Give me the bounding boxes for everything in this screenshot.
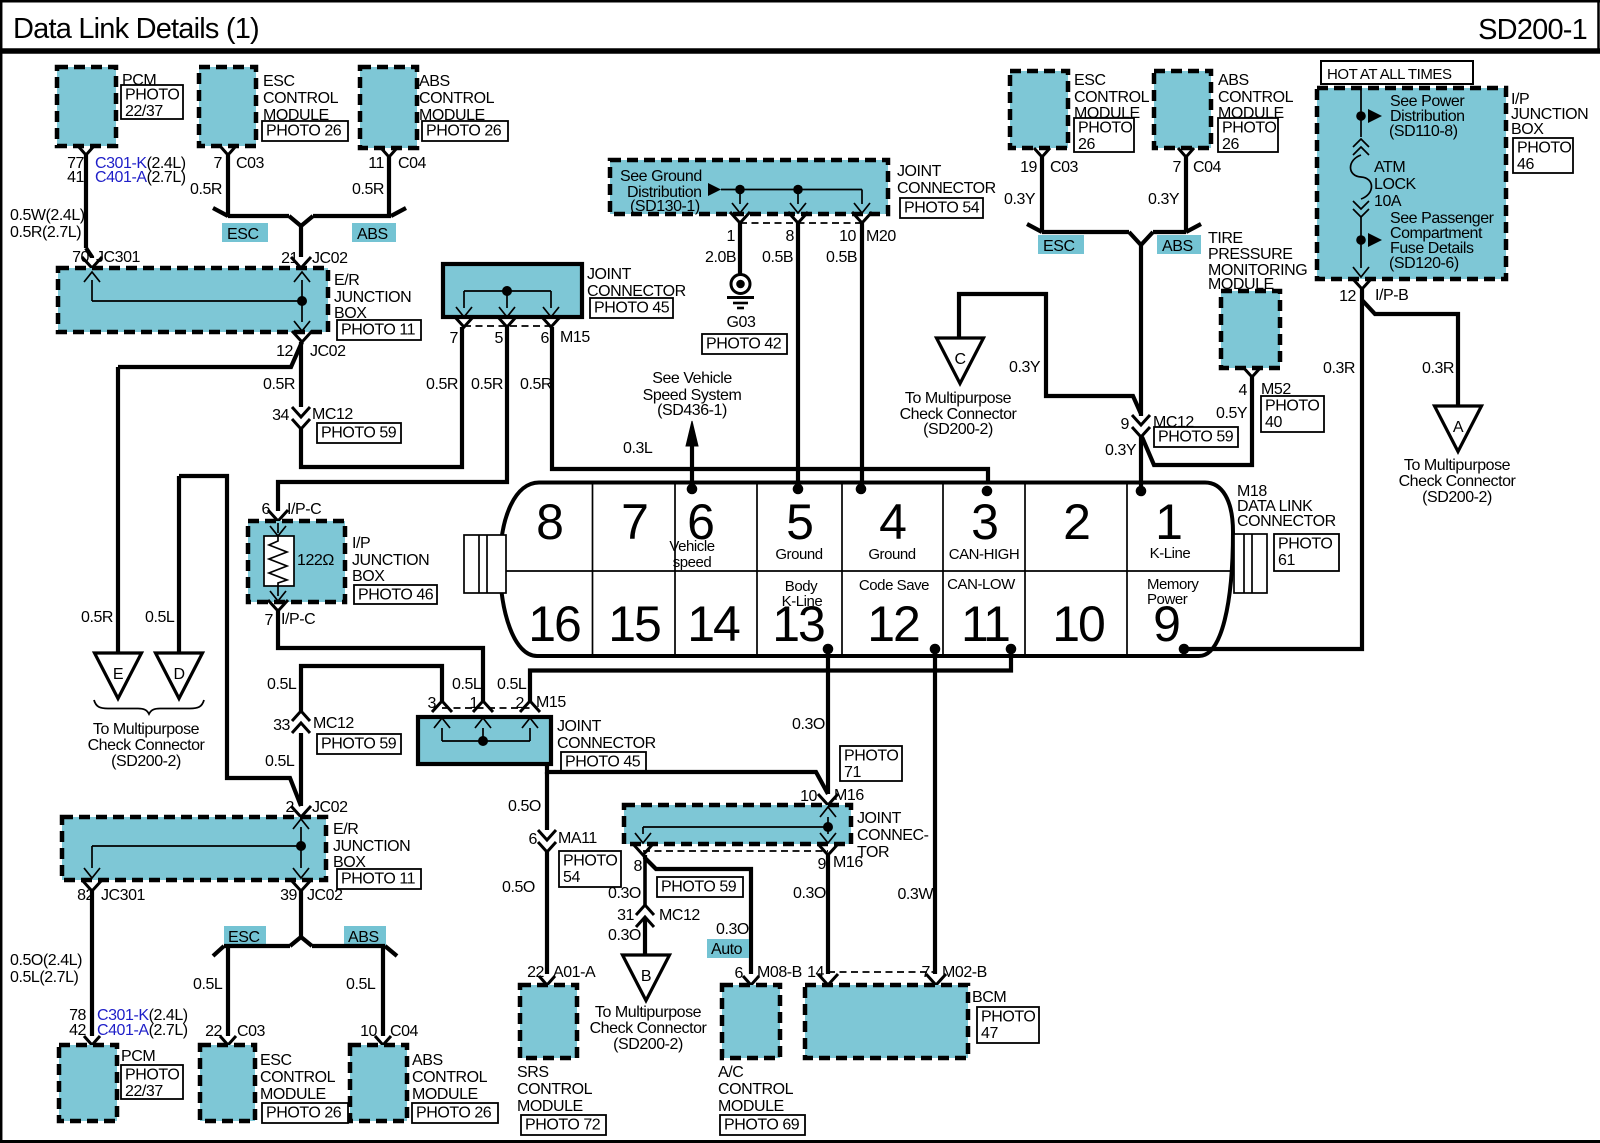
svg-text:1: 1: [727, 228, 736, 245]
svg-text:0.3W: 0.3W: [897, 886, 934, 903]
svg-text:0.5L: 0.5L: [267, 676, 297, 693]
svg-text:ESC: ESC: [1043, 238, 1075, 255]
svg-text:ATM: ATM: [1374, 159, 1405, 176]
svg-text:See Ground: See Ground: [620, 168, 702, 185]
svg-text:Code Save: Code Save: [859, 577, 929, 594]
svg-text:33: 33: [273, 717, 290, 734]
svg-text:I/P: I/P: [352, 535, 370, 552]
svg-text:C03: C03: [237, 1023, 266, 1040]
svg-text:K-Line: K-Line: [1150, 545, 1191, 562]
svg-text:4: 4: [879, 494, 906, 550]
svg-text:2: 2: [1063, 494, 1089, 550]
svg-text:(SD436-1): (SD436-1): [657, 402, 727, 419]
svg-text:C: C: [954, 351, 965, 368]
svg-text:71: 71: [844, 764, 861, 781]
svg-text:E/R: E/R: [334, 272, 359, 289]
svg-text:0.5R(2.7L): 0.5R(2.7L): [10, 224, 81, 241]
svg-text:8: 8: [634, 858, 643, 875]
svg-text:0.3O: 0.3O: [608, 885, 641, 902]
svg-text:ESC: ESC: [228, 929, 260, 946]
svg-text:PHOTO: PHOTO: [125, 87, 179, 104]
svg-text:PHOTO: PHOTO: [1078, 120, 1132, 137]
svg-text:0.5R: 0.5R: [426, 376, 458, 393]
svg-text:0.5B: 0.5B: [826, 249, 857, 266]
svg-text:4: 4: [1239, 382, 1248, 399]
svg-text:12: 12: [276, 343, 293, 360]
svg-text:PHOTO 26: PHOTO 26: [426, 123, 502, 140]
svg-text:PCM: PCM: [121, 1048, 155, 1065]
svg-text:0.3O: 0.3O: [608, 927, 641, 944]
svg-text:MC12: MC12: [313, 715, 354, 732]
svg-text:I/P-B: I/P-B: [1375, 287, 1408, 304]
svg-text:MODULE: MODULE: [517, 1098, 583, 1115]
svg-text:14: 14: [807, 964, 824, 981]
svg-text:0.5L: 0.5L: [193, 976, 223, 993]
svg-text:CONTROL: CONTROL: [718, 1081, 794, 1098]
svg-text:0.3R: 0.3R: [1323, 360, 1355, 377]
svg-text:34: 34: [272, 407, 289, 424]
svg-text:E: E: [113, 666, 123, 683]
svg-text:1: 1: [470, 695, 479, 712]
svg-text:C03: C03: [1050, 159, 1079, 176]
svg-text:PHOTO 11: PHOTO 11: [341, 871, 416, 888]
svg-text:PHOTO 59: PHOTO 59: [321, 736, 397, 753]
svg-text:speed: speed: [673, 554, 712, 571]
svg-text:LOCK: LOCK: [1374, 176, 1417, 193]
svg-text:JUNCTION: JUNCTION: [334, 289, 411, 306]
svg-text:TOR: TOR: [857, 844, 889, 861]
svg-text:7: 7: [265, 612, 274, 629]
svg-text:10A: 10A: [1374, 193, 1402, 210]
svg-text:CAN-HIGH: CAN-HIGH: [949, 546, 1020, 563]
svg-text:PHOTO 72: PHOTO 72: [525, 1117, 601, 1134]
svg-text:Auto: Auto: [711, 941, 743, 958]
svg-text:A01-A: A01-A: [553, 964, 596, 981]
svg-text:CONTROL: CONTROL: [412, 1069, 488, 1086]
svg-text:JOINT: JOINT: [557, 718, 602, 735]
svg-text:0.5R: 0.5R: [520, 376, 552, 393]
svg-text:JUNCTION: JUNCTION: [333, 838, 410, 855]
svg-text:15: 15: [608, 596, 660, 652]
svg-text:PHOTO 59: PHOTO 59: [1158, 429, 1234, 446]
svg-text:22: 22: [205, 1023, 222, 1040]
svg-text:6: 6: [735, 965, 744, 982]
svg-text:7: 7: [214, 155, 223, 172]
svg-text:6: 6: [529, 831, 538, 848]
svg-text:ESC: ESC: [1074, 72, 1106, 89]
svg-text:0.3Y: 0.3Y: [1009, 359, 1041, 376]
svg-text:B: B: [641, 968, 651, 985]
svg-text:0.5O: 0.5O: [502, 879, 535, 896]
svg-text:7: 7: [1173, 159, 1182, 176]
svg-text:(SD200-2): (SD200-2): [613, 1036, 683, 1053]
svg-text:0.3O: 0.3O: [793, 885, 826, 902]
svg-text:2.0B: 2.0B: [705, 249, 736, 266]
svg-text:0.5R: 0.5R: [81, 609, 113, 626]
svg-text:I/P-C: I/P-C: [287, 501, 321, 518]
svg-text:0.5L: 0.5L: [265, 753, 295, 770]
svg-text:HOT AT ALL TIMES: HOT AT ALL TIMES: [1327, 66, 1452, 83]
svg-text:I/P-C: I/P-C: [281, 611, 315, 628]
svg-text:C401-A(2.7L): C401-A(2.7L): [97, 1022, 188, 1039]
svg-text:0.5L(2.7L): 0.5L(2.7L): [10, 969, 79, 986]
svg-text:JC02: JC02: [312, 250, 348, 267]
svg-text:0.3Y: 0.3Y: [1148, 191, 1180, 208]
svg-text:SD200-1: SD200-1: [1478, 14, 1587, 46]
svg-text:CONTROL: CONTROL: [1074, 89, 1150, 106]
svg-text:122Ω: 122Ω: [297, 552, 334, 569]
svg-text:CAN-LOW: CAN-LOW: [947, 576, 1016, 593]
svg-text:10: 10: [360, 1023, 377, 1040]
svg-text:M20: M20: [866, 228, 896, 245]
svg-text:0.3Y: 0.3Y: [1105, 442, 1137, 459]
svg-text:61: 61: [1278, 552, 1295, 569]
svg-text:PHOTO 45: PHOTO 45: [594, 300, 670, 317]
svg-text:1: 1: [1155, 494, 1181, 550]
svg-text:PHOTO 26: PHOTO 26: [266, 1105, 342, 1122]
svg-text:ABS: ABS: [1162, 238, 1193, 255]
svg-text:CONTROL: CONTROL: [1218, 89, 1294, 106]
svg-text:K-Line: K-Line: [782, 593, 823, 610]
svg-text:M15: M15: [536, 694, 566, 711]
svg-text:31: 31: [617, 907, 634, 924]
svg-text:PHOTO 26: PHOTO 26: [416, 1105, 492, 1122]
svg-text:8: 8: [786, 228, 795, 245]
svg-text:ABS: ABS: [348, 929, 379, 946]
svg-text:PHOTO: PHOTO: [981, 1009, 1035, 1026]
svg-text:0.3Y: 0.3Y: [1004, 191, 1036, 208]
svg-text:0.3R: 0.3R: [1422, 360, 1454, 377]
svg-text:JOINT: JOINT: [587, 266, 632, 283]
svg-text:M16: M16: [834, 787, 864, 804]
svg-text:ABS: ABS: [419, 73, 450, 90]
svg-text:(SD200-2): (SD200-2): [111, 753, 181, 770]
svg-text:BOX: BOX: [352, 568, 385, 585]
svg-text:JC301: JC301: [96, 249, 141, 266]
svg-text:0.3L: 0.3L: [623, 440, 653, 457]
svg-text:3: 3: [428, 695, 437, 712]
svg-text:(SD200-2): (SD200-2): [923, 421, 993, 438]
svg-text:40: 40: [1265, 414, 1282, 431]
svg-text:0.5O(2.4L): 0.5O(2.4L): [10, 952, 82, 969]
svg-text:3: 3: [971, 494, 997, 550]
svg-text:46: 46: [1517, 156, 1534, 173]
svg-text:2: 2: [516, 695, 525, 712]
svg-text:TIRE: TIRE: [1208, 230, 1243, 247]
svg-text:PHOTO 11: PHOTO 11: [341, 322, 416, 339]
svg-text:0.5L: 0.5L: [145, 609, 175, 626]
svg-text:M15: M15: [560, 329, 590, 346]
svg-text:0.5R: 0.5R: [263, 376, 295, 393]
svg-text:JUNCTION: JUNCTION: [352, 552, 429, 569]
svg-text:ESC: ESC: [227, 226, 259, 243]
svg-text:Check Connector: Check Connector: [1399, 473, 1517, 490]
svg-text:0.5R: 0.5R: [352, 181, 384, 198]
svg-text:PHOTO 45: PHOTO 45: [565, 754, 641, 771]
svg-text:22/37: 22/37: [125, 103, 163, 120]
svg-text:C04: C04: [1193, 159, 1222, 176]
svg-text:6: 6: [262, 501, 271, 518]
svg-text:16: 16: [528, 596, 580, 652]
svg-text:PHOTO: PHOTO: [1517, 140, 1571, 157]
svg-text:CONNECTOR: CONNECTOR: [557, 735, 656, 752]
svg-text:PHOTO: PHOTO: [1265, 398, 1319, 415]
svg-text:PHOTO: PHOTO: [844, 748, 898, 765]
svg-text:7: 7: [450, 330, 459, 347]
svg-text:SRS: SRS: [517, 1064, 549, 1081]
svg-text:PHOTO: PHOTO: [1222, 120, 1276, 137]
svg-text:MODULE: MODULE: [260, 1086, 326, 1103]
svg-text:0.5Y: 0.5Y: [1216, 405, 1248, 422]
svg-text:JOINT: JOINT: [857, 810, 902, 827]
svg-text:PHOTO 42: PHOTO 42: [706, 336, 782, 353]
svg-text:ABS: ABS: [412, 1052, 443, 1069]
svg-text:PRESSURE: PRESSURE: [1208, 246, 1292, 263]
svg-text:9: 9: [818, 856, 827, 873]
svg-text:PHOTO 69: PHOTO 69: [724, 1117, 800, 1134]
svg-text:ESC: ESC: [263, 73, 295, 90]
svg-text:7: 7: [621, 494, 647, 550]
svg-text:MODULE: MODULE: [412, 1086, 478, 1103]
svg-text:8: 8: [536, 494, 562, 550]
svg-text:19: 19: [1020, 159, 1037, 176]
svg-text:A: A: [1453, 419, 1464, 436]
svg-text:MA11: MA11: [558, 830, 597, 847]
svg-text:Data Link Details (1): Data Link Details (1): [13, 13, 259, 45]
svg-text:To Multipurpose: To Multipurpose: [595, 1004, 702, 1021]
svg-text:MC12: MC12: [312, 406, 353, 423]
svg-text:0.3O: 0.3O: [792, 716, 825, 733]
svg-text:CONNECTOR: CONNECTOR: [1237, 513, 1336, 530]
svg-text:C04: C04: [390, 1023, 419, 1040]
svg-text:47: 47: [981, 1025, 998, 1042]
svg-text:To Multipurpose: To Multipurpose: [1404, 457, 1511, 474]
svg-text:5: 5: [786, 494, 812, 550]
svg-text:BOX: BOX: [1511, 121, 1544, 138]
svg-text:10: 10: [839, 228, 856, 245]
svg-text:0.5L: 0.5L: [452, 676, 482, 693]
svg-text:0.5R: 0.5R: [190, 181, 222, 198]
svg-text:Ground: Ground: [775, 546, 822, 563]
svg-text:(SD130-1): (SD130-1): [630, 198, 700, 215]
svg-text:CONTROL: CONTROL: [260, 1069, 336, 1086]
svg-text:Power: Power: [1147, 591, 1188, 608]
svg-text:5: 5: [495, 330, 504, 347]
svg-text:CONTROL: CONTROL: [263, 90, 339, 107]
svg-text:Check Connector: Check Connector: [590, 1020, 708, 1037]
svg-text:10: 10: [1052, 596, 1104, 652]
svg-text:PHOTO 59: PHOTO 59: [321, 425, 397, 442]
svg-text:0.5W(2.4L): 0.5W(2.4L): [10, 207, 85, 224]
svg-text:C401-A(2.7L): C401-A(2.7L): [95, 169, 186, 186]
svg-text:14: 14: [687, 596, 740, 652]
svg-text:Vehicle: Vehicle: [669, 538, 714, 555]
svg-text:PHOTO: PHOTO: [125, 1067, 179, 1084]
svg-text:41: 41: [67, 169, 84, 186]
svg-text:0.3O: 0.3O: [716, 921, 749, 938]
svg-text:ABS: ABS: [357, 226, 388, 243]
svg-text:D: D: [173, 666, 184, 683]
svg-text:7: 7: [922, 964, 931, 981]
svg-text:0.5O: 0.5O: [508, 798, 541, 815]
svg-text:To Multipurpose: To Multipurpose: [93, 721, 200, 738]
svg-text:26: 26: [1078, 136, 1095, 153]
svg-text:C04: C04: [398, 155, 427, 172]
svg-text:0.5L: 0.5L: [497, 676, 527, 693]
svg-text:39: 39: [280, 887, 297, 904]
svg-text:Ground: Ground: [868, 546, 915, 563]
svg-text:CONNECTOR: CONNECTOR: [897, 180, 996, 197]
svg-text:C03: C03: [236, 155, 265, 172]
svg-text:ESC: ESC: [260, 1052, 292, 1069]
svg-text:PHOTO 59: PHOTO 59: [661, 879, 737, 896]
svg-text:To Multipurpose: To Multipurpose: [905, 390, 1012, 407]
svg-text:PHOTO: PHOTO: [563, 853, 617, 870]
svg-text:54: 54: [563, 869, 580, 886]
svg-text:PHOTO: PHOTO: [1278, 536, 1332, 553]
svg-text:0.5B: 0.5B: [762, 249, 793, 266]
svg-text:10: 10: [800, 788, 817, 805]
svg-text:BCM: BCM: [972, 989, 1006, 1006]
svg-text:0.5L: 0.5L: [346, 976, 376, 993]
svg-text:12: 12: [1339, 288, 1356, 305]
svg-text:(SD200-2): (SD200-2): [1422, 489, 1492, 506]
svg-text:E/R: E/R: [333, 821, 358, 838]
svg-text:See Vehicle: See Vehicle: [652, 370, 732, 387]
svg-text:42: 42: [69, 1022, 86, 1039]
svg-text:Check Connector: Check Connector: [88, 737, 206, 754]
svg-text:PHOTO 46: PHOTO 46: [358, 587, 434, 604]
svg-text:(SD120-6): (SD120-6): [1389, 255, 1459, 272]
svg-text:22/37: 22/37: [125, 1083, 163, 1100]
svg-text:A/C: A/C: [718, 1064, 743, 1081]
svg-text:CONTROL: CONTROL: [517, 1081, 593, 1098]
svg-text:22: 22: [527, 964, 544, 981]
svg-text:ABS: ABS: [1218, 72, 1249, 89]
svg-text:M08-B: M08-B: [757, 964, 802, 981]
svg-text:G03: G03: [727, 314, 756, 331]
svg-text:11: 11: [961, 596, 1009, 652]
svg-text:MC12: MC12: [659, 907, 700, 924]
svg-text:M02-B: M02-B: [942, 964, 987, 981]
svg-text:JC02: JC02: [312, 799, 348, 816]
svg-text:26: 26: [1222, 136, 1239, 153]
svg-text:MODULE: MODULE: [718, 1098, 784, 1115]
svg-text:(SD110-8): (SD110-8): [1389, 123, 1458, 140]
svg-text:2: 2: [286, 799, 295, 816]
svg-text:CONTROL: CONTROL: [419, 90, 495, 107]
svg-text:JC02: JC02: [310, 343, 346, 360]
svg-text:PHOTO 54: PHOTO 54: [904, 200, 980, 217]
svg-text:JOINT: JOINT: [897, 163, 942, 180]
svg-text:9: 9: [1121, 416, 1130, 433]
svg-text:6: 6: [541, 330, 550, 347]
svg-text:11: 11: [368, 155, 384, 172]
svg-text:PHOTO 26: PHOTO 26: [266, 123, 342, 140]
svg-text:21: 21: [281, 250, 298, 267]
svg-text:12: 12: [867, 596, 919, 652]
svg-text:0.5R: 0.5R: [471, 376, 503, 393]
svg-text:CONNEC-: CONNEC-: [857, 827, 929, 844]
svg-text:JC301: JC301: [101, 887, 146, 904]
